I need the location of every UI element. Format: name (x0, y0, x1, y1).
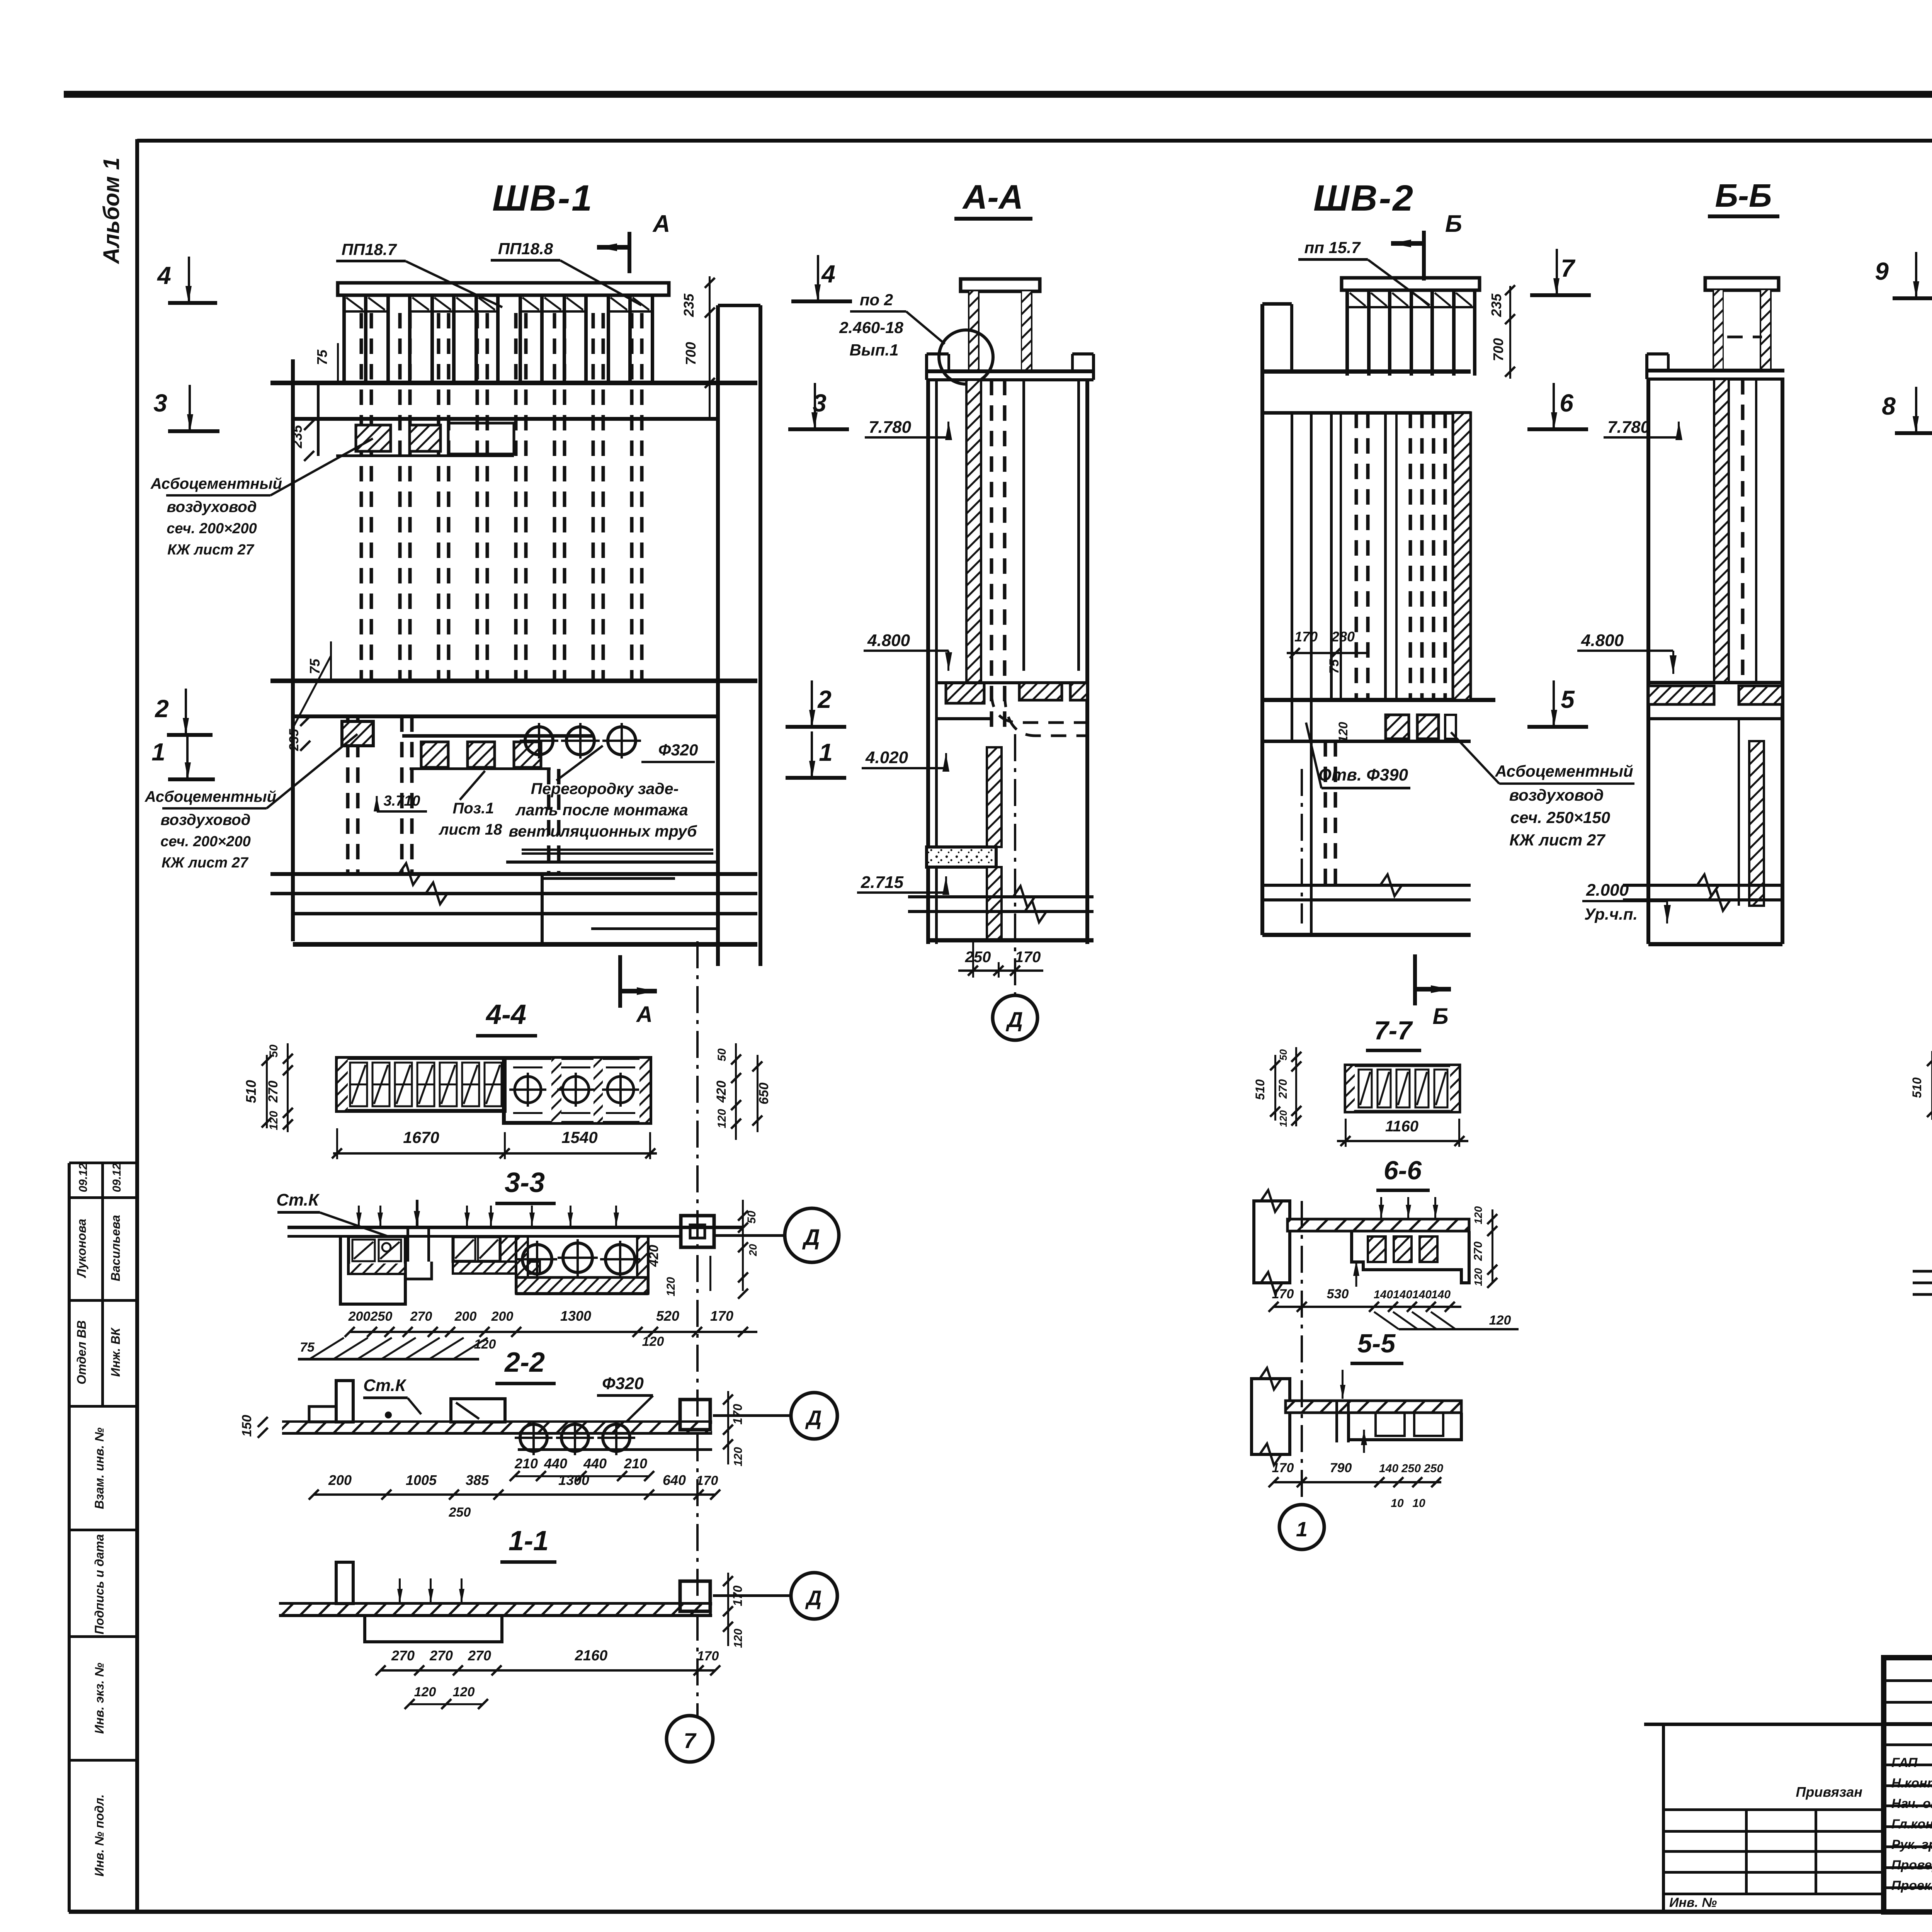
svg-text:А: А (636, 1002, 653, 1027)
1-1 left pipe (336, 1562, 353, 1604)
svg-text:Вып.1: Вып.1 (850, 341, 899, 359)
3-3 bottom dims (350, 1331, 757, 1333)
svg-text:ШВ-1: ШВ-1 (492, 178, 594, 219)
svg-text:7.780: 7.780 (869, 418, 912, 437)
svg-text:10: 10 (1391, 1497, 1404, 1510)
svg-text:7.780: 7.780 (1607, 418, 1650, 437)
3-3 ground hatch strip (298, 1358, 479, 1361)
svg-text:пп 15.7: пп 15.7 (1304, 238, 1361, 257)
ShV-1 partition bench (402, 734, 594, 738)
svg-text:140: 140 (1379, 1462, 1398, 1475)
svg-text:сеч. 200×200: сеч. 200×200 (160, 833, 251, 850)
svg-text:Перегородку заде-: Перегородку заде- (531, 780, 679, 798)
svg-text:КЖ лист 27: КЖ лист 27 (167, 542, 255, 558)
A-A duct elbow dashed (992, 692, 1087, 723)
svg-text:Б: Б (1445, 211, 1462, 237)
svg-text:170: 170 (696, 1473, 718, 1488)
4-4 dim 1670 1540 (333, 1152, 657, 1155)
ShV-1 duct opening cells below level4 (356, 425, 391, 451)
ShV-2 lower interior (1324, 741, 1327, 885)
section B cut marker top (1422, 231, 1426, 281)
svg-text:КЖ лист 27: КЖ лист 27 (162, 855, 249, 871)
svg-text:170: 170 (697, 1649, 719, 1663)
svg-text:1300: 1300 (560, 1308, 591, 1324)
svg-text:20: 20 (747, 1244, 759, 1257)
A-A mid floor slabs (946, 683, 984, 703)
svg-text:Инв. №: Инв. № (1669, 1895, 1717, 1910)
svg-text:1-1: 1-1 (509, 1526, 549, 1556)
4-4 hollow panel strip left block (337, 1058, 505, 1111)
svg-text:2.000: 2.000 (1586, 881, 1629, 900)
5-5 left wall (1252, 1379, 1290, 1454)
svg-text:75: 75 (1327, 659, 1342, 674)
svg-text:10: 10 (1412, 1497, 1425, 1510)
B-B mid slab (1648, 681, 1782, 684)
svg-text:120: 120 (1277, 1110, 1289, 1127)
A-A parapet and roof slab (927, 369, 1094, 373)
svg-text:Д: Д (805, 1406, 822, 1430)
A-A base lines (908, 895, 1094, 898)
3-3 right box with pipes (516, 1236, 528, 1277)
svg-text:270: 270 (266, 1081, 281, 1103)
svg-text:Рук. гр.: Рук. гр. (1891, 1837, 1932, 1852)
svg-text:210: 210 (624, 1456, 647, 1471)
svg-text:120: 120 (732, 1447, 745, 1466)
svg-text:Отдел ВВ: Отдел ВВ (75, 1320, 88, 1384)
svg-text:120: 120 (1489, 1313, 1511, 1328)
1-1 column square (680, 1581, 710, 1611)
svg-text:КЖ лист 27: КЖ лист 27 (1509, 831, 1605, 849)
ShV-1 hidden dashed lines lower (346, 716, 350, 874)
svg-text:Подпись и дата: Подпись и дата (92, 1534, 106, 1634)
svg-text:250: 250 (1401, 1462, 1421, 1475)
svg-text:120: 120 (453, 1685, 475, 1699)
svg-text:640: 640 (663, 1472, 686, 1488)
3-3 left wall drop (340, 1236, 405, 1304)
ShV-1 dims right 235 700 (709, 276, 711, 419)
ShV-1 hidden duct dashed lines upper (360, 313, 363, 681)
svg-text:Инж. ВК: Инж. ВК (109, 1327, 122, 1377)
3-3 mid cells (453, 1236, 500, 1262)
svg-text:120: 120 (642, 1334, 664, 1349)
svg-text:вентиляционных труб: вентиляционных труб (509, 822, 698, 840)
svg-text:1160: 1160 (1385, 1118, 1418, 1135)
6-6 arrows (1380, 1197, 1382, 1218)
6-6 right dim stack (1492, 1209, 1493, 1283)
ShV-1 right parapet wall (716, 305, 720, 966)
svg-text:3.710: 3.710 (383, 793, 420, 809)
svg-text:140: 140 (1431, 1288, 1451, 1301)
2-2 grid circle D (713, 1414, 792, 1417)
svg-text:235: 235 (681, 293, 697, 317)
ShV-2 right hatched wall (1453, 413, 1471, 700)
svg-text:50: 50 (267, 1044, 280, 1058)
6-6 slab (1287, 1219, 1469, 1231)
9-9 left dim stack (1931, 1051, 1932, 1120)
svg-text:270: 270 (429, 1648, 453, 1663)
svg-text:09.12: 09.12 (77, 1163, 90, 1192)
7-7 block (1345, 1065, 1459, 1112)
7-7 left dim stack (1274, 1055, 1276, 1121)
svg-text:Д: Д (1006, 1007, 1023, 1032)
svg-text:Б: Б (1432, 1004, 1448, 1029)
svg-text:120: 120 (665, 1277, 677, 1296)
A-A detail circle po2 (939, 330, 993, 384)
svg-text:Б-Б: Б-Б (1715, 177, 1772, 214)
svg-text:75: 75 (307, 658, 323, 674)
svg-text:280: 280 (1331, 629, 1355, 645)
svg-text:270: 270 (391, 1648, 415, 1663)
svg-text:ШВ-2: ШВ-2 (1313, 178, 1415, 219)
ShV-2 left big wall (1260, 304, 1264, 935)
section B cut marker bottom (1413, 954, 1417, 1005)
svg-text:420: 420 (714, 1081, 729, 1103)
svg-text:Ф320: Ф320 (658, 741, 698, 759)
svg-text:Альбом 1: Альбом 1 (99, 157, 124, 264)
svg-text:700: 700 (1490, 338, 1506, 361)
ShV-2 base lines (1262, 884, 1471, 887)
svg-text:Асбоцементный: Асбоцементный (150, 475, 282, 492)
svg-text:8: 8 (1882, 392, 1896, 420)
svg-text:50: 50 (745, 1211, 758, 1224)
ShV-1 pit edge lines (522, 849, 713, 851)
attachment table left of title block (1644, 1723, 1884, 1726)
2-2 column square (680, 1400, 710, 1430)
svg-text:ПП18.8: ПП18.8 (498, 240, 553, 258)
svg-text:лист 18: лист 18 (439, 821, 502, 838)
svg-text:120: 120 (732, 1629, 745, 1648)
svg-text:2.460-18: 2.460-18 (839, 318, 903, 337)
B-B roof slab (1647, 369, 1784, 372)
svg-text:А-А: А-А (962, 178, 1023, 216)
svg-text:140: 140 (1412, 1288, 1432, 1301)
section A cut marker bottom (618, 955, 622, 1008)
svg-text:Ст.К: Ст.К (363, 1376, 407, 1395)
svg-text:Н.контр.: Н.контр. (1891, 1776, 1932, 1791)
svg-text:сеч. 200×200: сеч. 200×200 (167, 520, 257, 537)
svg-text:3: 3 (153, 389, 167, 417)
1-1 slab band (279, 1602, 712, 1605)
3-3 centre pillar (406, 1228, 409, 1262)
svg-text:2.715: 2.715 (861, 873, 904, 892)
svg-text:200: 200 (328, 1472, 352, 1488)
svg-text:235: 235 (289, 425, 305, 449)
A-A lower hatched duct (987, 747, 1002, 847)
3-3 left cells (349, 1236, 405, 1274)
7-7 dim 1160 (1337, 1140, 1468, 1142)
section A cut marker top (628, 232, 631, 273)
svg-text:210: 210 (514, 1456, 538, 1471)
title block left table rows (1884, 1679, 1932, 1682)
svg-text:250: 250 (965, 949, 991, 966)
6-6 dims (1274, 1306, 1461, 1308)
svg-text:5-5: 5-5 (1357, 1329, 1396, 1358)
svg-text:воздуховод: воздуховод (167, 498, 257, 515)
svg-text:120: 120 (716, 1109, 728, 1128)
svg-text:120: 120 (1472, 1206, 1484, 1224)
B-B lower duct (1749, 741, 1764, 906)
svg-text:Гл.конст.от: Гл.конст.от (1891, 1817, 1932, 1832)
svg-text:1: 1 (1296, 1518, 1308, 1541)
4-4 right block with pipes (504, 1058, 650, 1123)
svg-text:Ст.К: Ст.К (276, 1190, 320, 1209)
svg-text:510: 510 (243, 1080, 259, 1103)
B-B top cap (1705, 278, 1779, 290)
ShV-1 roof slab (338, 283, 669, 295)
svg-text:2-2: 2-2 (504, 1347, 545, 1378)
svg-text:Д: Д (805, 1587, 822, 1610)
svg-text:9: 9 (1875, 257, 1889, 285)
svg-text:170: 170 (731, 1585, 745, 1606)
svg-text:1300: 1300 (558, 1472, 589, 1488)
A-A axis and grid circle D (1014, 734, 1016, 995)
svg-text:700: 700 (683, 342, 699, 365)
svg-text:440: 440 (583, 1456, 607, 1471)
svg-text:75: 75 (314, 349, 330, 365)
2-2 circles (520, 1424, 547, 1451)
svg-text:Привязан: Привязан (1796, 1784, 1863, 1800)
left margin stamp table (68, 1163, 71, 1912)
2-2 left pipe (336, 1381, 353, 1422)
ShV-2 left lower wall (1310, 413, 1313, 935)
svg-text:4-4: 4-4 (485, 999, 526, 1030)
svg-text:7: 7 (684, 1728, 697, 1753)
svg-text:1670: 1670 (403, 1128, 439, 1146)
svg-text:250: 250 (1423, 1462, 1443, 1475)
svg-text:50: 50 (1277, 1049, 1289, 1060)
svg-text:250: 250 (449, 1505, 471, 1520)
svg-text:7: 7 (1561, 254, 1576, 282)
svg-text:1005: 1005 (406, 1472, 437, 1488)
5-5 duct (1349, 1413, 1461, 1440)
A-A top cap (961, 279, 1040, 291)
2-2 right dims (727, 1391, 729, 1464)
5-5 arrow top (1342, 1370, 1344, 1399)
svg-text:воздуховод: воздуховод (1509, 786, 1604, 804)
grid circle 7 (667, 1716, 713, 1762)
ShV-2 interior verticals (1330, 413, 1333, 700)
svg-text:150: 150 (240, 1415, 254, 1437)
ShV-1 floor band level 4 (270, 381, 757, 385)
svg-text:Асбоцементный: Асбоцементный (145, 788, 276, 805)
ShV-2 dims right 235 700 (1509, 286, 1511, 379)
svg-text:270: 270 (1472, 1242, 1485, 1261)
svg-text:Асбоцементный: Асбоцементный (1495, 762, 1633, 780)
1-1 arrows (399, 1578, 401, 1603)
3-3 slab (287, 1226, 743, 1229)
svg-text:170: 170 (1015, 949, 1041, 966)
A-A bottom slab (927, 847, 996, 867)
5-5 slab (1286, 1401, 1461, 1413)
svg-text:510: 510 (1253, 1079, 1267, 1100)
ShV-1 left wall (291, 359, 295, 941)
svg-text:170: 170 (1272, 1461, 1294, 1475)
6-6 5-5 axis line (1301, 1201, 1303, 1503)
svg-text:4: 4 (156, 262, 171, 289)
svg-text:Отв. Ф390: Отв. Ф390 (1318, 765, 1408, 784)
6-6 duct cells (1352, 1231, 1469, 1283)
svg-text:235: 235 (287, 729, 301, 752)
svg-text:4: 4 (821, 260, 835, 288)
svg-text:сеч. 250×150: сеч. 250×150 (1510, 808, 1610, 827)
3-3 arrows above (358, 1206, 360, 1226)
svg-text:7-7: 7-7 (1374, 1016, 1413, 1045)
svg-text:510: 510 (1910, 1077, 1924, 1098)
6-6 left wall (1254, 1201, 1290, 1283)
ShV-1 floor band level 2 (270, 679, 757, 683)
ShV-1 bottom slabs (270, 872, 757, 876)
1-1 dims (381, 1669, 715, 1672)
4-4 right dim stack (735, 1043, 737, 1140)
svg-text:270: 270 (410, 1309, 432, 1324)
svg-text:440: 440 (544, 1456, 567, 1471)
svg-text:по 2: по 2 (860, 291, 893, 309)
svg-text:420: 420 (646, 1245, 661, 1267)
ShV-2 floors (1262, 369, 1471, 374)
1-1 grid circle D (713, 1594, 792, 1597)
svg-text:140: 140 (1374, 1288, 1393, 1301)
svg-text:Инв. экз. №: Инв. экз. № (92, 1663, 106, 1734)
ShV-2 duct cells under floor (1386, 715, 1409, 739)
svg-text:2160: 2160 (575, 1648, 608, 1664)
svg-text:09.12: 09.12 (111, 1163, 123, 1192)
svg-text:А: А (652, 211, 670, 237)
svg-text:235: 235 (1488, 293, 1504, 317)
A-A inner duct dashed (990, 380, 993, 734)
svg-text:120: 120 (1472, 1268, 1484, 1286)
A-A shaft walls (926, 380, 930, 944)
svg-text:200: 200 (491, 1309, 514, 1324)
svg-text:270: 270 (1277, 1079, 1289, 1099)
1-1 right dims (727, 1573, 729, 1646)
svg-text:120: 120 (1336, 722, 1350, 743)
svg-text:120: 120 (414, 1685, 436, 1699)
svg-text:Луконова: Луконова (75, 1219, 88, 1278)
svg-text:2: 2 (817, 685, 832, 713)
svg-text:Васильева: Васильева (109, 1215, 122, 1281)
sheet frame (135, 139, 139, 1912)
B-B shaft (1646, 379, 1650, 944)
3-3 column square (681, 1216, 714, 1247)
svg-text:3-3: 3-3 (505, 1167, 545, 1198)
5-5 dims (1274, 1481, 1441, 1483)
grid circle 1 (1279, 1505, 1324, 1549)
svg-text:Поз.1: Поз.1 (453, 800, 494, 817)
3-3 grid circle D (715, 1234, 784, 1237)
svg-text:ПП18.7: ПП18.7 (342, 240, 397, 259)
B-B base (1623, 884, 1782, 887)
svg-text:75: 75 (300, 1340, 315, 1355)
svg-text:1: 1 (819, 738, 833, 766)
4-4 left dim stack (266, 1055, 268, 1128)
ShV-2 vent band (1345, 290, 1349, 376)
svg-text:530: 530 (1327, 1287, 1349, 1301)
svg-text:Проверял: Проверял (1891, 1858, 1932, 1872)
svg-text:4.800: 4.800 (867, 631, 910, 650)
svg-text:520: 520 (656, 1308, 679, 1324)
A-A hatched duct wall (966, 380, 981, 685)
svg-text:ГАП: ГАП (1891, 1755, 1918, 1770)
svg-text:6-6: 6-6 (1384, 1156, 1422, 1185)
2-2 slab band (282, 1420, 712, 1424)
svg-text:Нач. отд.: Нач. отд. (1891, 1796, 1932, 1811)
svg-text:385: 385 (466, 1472, 489, 1488)
svg-text:790: 790 (1330, 1461, 1352, 1475)
svg-text:170: 170 (1272, 1287, 1294, 1301)
svg-text:Проектир.: Проектир. (1891, 1878, 1932, 1893)
svg-text:120: 120 (267, 1111, 280, 1130)
ShV-1 lower duct hatched box (342, 721, 373, 746)
svg-text:1540: 1540 (561, 1128, 597, 1146)
svg-text:50: 50 (716, 1048, 728, 1061)
svg-text:1: 1 (151, 738, 165, 766)
1-1 pit below (365, 1615, 502, 1642)
svg-text:Д: Д (802, 1225, 820, 1250)
svg-text:4.020: 4.020 (865, 748, 908, 767)
svg-text:Ф320: Ф320 (602, 1374, 644, 1393)
svg-text:5: 5 (1561, 685, 1575, 713)
2-2 mid box (451, 1399, 505, 1422)
ShV-2 roof slab (1342, 278, 1480, 290)
svg-text:140: 140 (1393, 1288, 1412, 1301)
svg-text:2: 2 (155, 695, 169, 723)
svg-text:воздуховод: воздуховод (161, 811, 251, 828)
svg-text:4.800: 4.800 (1581, 631, 1624, 650)
svg-text:Взам. инв. №: Взам. инв. № (92, 1427, 106, 1509)
svg-text:170: 170 (710, 1308, 733, 1324)
ShV-1 vent pipe circles (525, 727, 553, 755)
svg-text:лать после монтажа: лать после монтажа (515, 801, 688, 819)
svg-text:250: 250 (370, 1309, 393, 1324)
svg-text:Инв. № подл.: Инв. № подл. (92, 1794, 106, 1877)
svg-text:6: 6 (1560, 389, 1573, 417)
ShV-1 vent panel band (342, 295, 346, 382)
svg-text:200: 200 (348, 1309, 371, 1324)
svg-text:170: 170 (1294, 629, 1318, 645)
3-3 right dim stack (742, 1200, 744, 1291)
ShV-1 axis line (696, 941, 699, 1716)
title block outer (1884, 1658, 1932, 1912)
svg-text:170: 170 (731, 1404, 745, 1425)
svg-text:270: 270 (468, 1648, 491, 1663)
svg-text:650: 650 (757, 1083, 771, 1105)
svg-text:200: 200 (454, 1309, 477, 1324)
top border line (64, 91, 1932, 98)
svg-text:Ур.ч.п.: Ур.ч.п. (1584, 905, 1638, 923)
